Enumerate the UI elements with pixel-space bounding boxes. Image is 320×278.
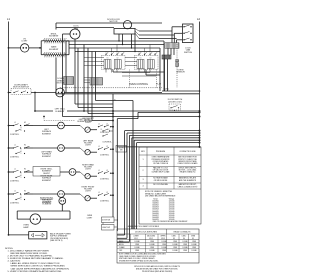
svg-text:H2: H2 [24, 169, 26, 171]
svg-text:RELAYS K3 AND K4: RELAYS K3 AND K4 [180, 171, 196, 174]
svg-text:CLOSED: CLOSED [182, 241, 188, 243]
svg-text:L1: L1 [14, 145, 16, 147]
svg-text:LOWER: LOWER [133, 236, 138, 238]
svg-text:LIGHT: LIGHT [85, 122, 91, 124]
svg-text:3: 3 [142, 179, 143, 181]
svg-text:SWITCH: SWITCH [184, 52, 192, 54]
svg-text:L1: L1 [98, 192, 100, 194]
svg-text:LIGHT: LIGHT [87, 217, 93, 219]
svg-text:K4: K4 [183, 238, 185, 240]
svg-text:(DOOR LOCK): (DOOR LOCK) [168, 102, 182, 104]
svg-text:4. CAUTION:: 4. CAUTION: [8, 260, 21, 263]
svg-text:OVEN CONTROL: OVEN CONTROL [129, 83, 149, 86]
svg-text:120/240: 120/240 [169, 201, 175, 203]
svg-text:L1: L1 [14, 191, 16, 193]
svg-text:MOTOR: MOTOR [110, 21, 118, 23]
svg-text:LIGHT: LIGHT [22, 41, 29, 43]
svg-text:CONTROL: CONTROL [100, 155, 109, 157]
svg-text:OPEN: OPEN [162, 250, 166, 252]
svg-text:L1: L1 [98, 170, 100, 172]
svg-text:CLOSED: CLOSED [161, 247, 167, 249]
svg-text:OVEN CONTROL BOARD: OVEN CONTROL BOARD [178, 162, 199, 165]
svg-text:CONTROL: CONTROL [100, 201, 109, 203]
svg-text:1600811: 1600811 [152, 203, 158, 205]
svg-text:CONTROL: CONTROL [10, 203, 19, 205]
svg-text:SHUNT: SHUNT [43, 173, 50, 175]
svg-text:CLOSED: CLOSED [191, 250, 197, 252]
svg-text:1600815: 1600815 [152, 211, 158, 213]
svg-text:OPEN: OPEN [192, 241, 196, 243]
svg-text:CLOSED: CLOSED [191, 244, 197, 246]
svg-text:L2: L2 [197, 17, 200, 21]
svg-text:1600816: 1600816 [152, 213, 158, 215]
svg-text:OPEN: OPEN [173, 247, 177, 249]
svg-text:LABEL ALL WIRES PRIOR TO DISCO: LABEL ALL WIRES PRIOR TO DISCONNECTION [11, 262, 60, 265]
svg-text:OPEN: OPEN [183, 244, 187, 246]
svg-text:OPEN: OPEN [150, 247, 154, 249]
svg-text:DOOR SW: DOOR SW [102, 219, 110, 221]
svg-text:1600810: 1600810 [152, 201, 158, 203]
svg-text:SW 2: SW 2 [149, 238, 153, 240]
svg-text:120/240: 120/240 [169, 219, 175, 221]
svg-text:CAN CAUSE IMPROPER AND DANGERO: CAN CAUSE IMPROPER AND DANGEROUS OPERATI… [11, 267, 70, 270]
svg-text:DURING SELF CLEAN: DURING SELF CLEAN [152, 171, 170, 174]
svg-text:2: 2 [142, 170, 143, 172]
svg-text:OR BROIL MODE: OR BROIL MODE [154, 180, 168, 182]
svg-text:LINE 2: LINE 2 [182, 236, 187, 238]
svg-text:DOOR LOCK SWITCHES: DOOR LOCK SWITCHES [135, 232, 158, 234]
svg-text:LAMP: LAMP [23, 226, 29, 229]
svg-text:K2: K2 [150, 58, 152, 60]
svg-text:5. VERIFY PROPER OPERATION AFT: 5. VERIFY PROPER OPERATION AFTER SERVICI… [8, 270, 63, 273]
svg-text:CLOSED: CLOSED [172, 250, 178, 252]
svg-text:ELEMENT: ELEMENT [42, 133, 52, 135]
svg-text:CLOSED: CLOSED [149, 250, 155, 252]
svg-text:MOTOR: MOTOR [57, 83, 65, 85]
svg-text:LIGHT: LIGHT [85, 169, 91, 171]
svg-text:120/240: 120/240 [169, 211, 175, 213]
svg-text:CLOSED: CLOSED [149, 244, 155, 246]
svg-text:1. DISCONNECT RANGE FROM POWER: 1. DISCONNECT RANGE FROM POWER [8, 249, 50, 252]
svg-text:AND THE ELEMENTS: AND THE ELEMENTS [179, 179, 197, 182]
svg-text:UPPER: UPPER [161, 236, 166, 238]
svg-text:3. SURF/OVN PLEASE RETURN DIAG: 3. SURF/OVN PLEASE RETURN DIAGRAM TO RAN… [8, 257, 64, 260]
svg-text:CHECK CONNECTOR P2: CHECK CONNECTOR P2 [178, 186, 198, 188]
svg-text:4: 4 [142, 186, 143, 188]
svg-text:120/240: 120/240 [169, 213, 175, 215]
svg-text:(SEE NOTE 3): (SEE NOTE 3) [50, 240, 63, 242]
svg-text:CLOSED: CLOSED [161, 241, 167, 243]
svg-text:SENSOR: SENSOR [176, 72, 185, 74]
svg-text:OPEN: OPEN [150, 241, 154, 243]
svg-text:L1: L1 [7, 17, 10, 21]
svg-text:ELEMENT: ELEMENT [42, 180, 52, 182]
svg-text:L1: L1 [101, 129, 103, 131]
svg-text:120/240: 120/240 [169, 209, 175, 211]
svg-text:L1: L1 [98, 146, 100, 148]
svg-text:K3: K3 [173, 238, 175, 240]
svg-text:K5: K5 [192, 238, 194, 240]
svg-text:OPEN: OPEN [135, 250, 139, 252]
svg-text:1600812: 1600812 [152, 205, 158, 207]
svg-text:CONTACTS IN USE: CONTACTS IN USE [179, 150, 196, 153]
svg-text:120/240: 120/240 [169, 217, 175, 219]
svg-text:CLOSED: CLOSED [172, 244, 178, 246]
svg-text:ELEMENT: ELEMENT [42, 156, 52, 158]
svg-text:H2: H2 [24, 191, 26, 193]
svg-text:CONTROL: CONTROL [102, 142, 111, 144]
svg-text:L1: L1 [14, 169, 16, 171]
svg-text:OPEN: OPEN [135, 244, 139, 246]
svg-text:BROIL: BROIL [119, 244, 124, 246]
svg-text:L1: L1 [98, 124, 100, 126]
svg-text:1600814: 1600814 [152, 209, 158, 211]
svg-text:ON THE CONSOLE: ON THE CONSOLE [153, 163, 169, 165]
svg-text:NO COOLING FAN: NO COOLING FAN [153, 183, 168, 186]
svg-text:CONTROL: CONTROL [100, 179, 109, 181]
svg-text:OPEN: OPEN [192, 247, 196, 249]
svg-text:LIGHT: LIGHT [85, 191, 91, 193]
svg-text:OVEN: OVEN [191, 236, 195, 238]
svg-text:SW 3: SW 3 [161, 238, 165, 240]
svg-text:LIGHT: LIGHT [85, 145, 91, 147]
svg-text:OPEN: OPEN [173, 241, 177, 243]
svg-text:NOTE: P/N 74008653-1 EFFECTIVE: NOTE: P/N 74008653-1 EFFECTIVE [145, 191, 173, 193]
svg-text:L1: L1 [14, 122, 16, 124]
svg-text:120/240: 120/240 [169, 215, 175, 217]
svg-text:P1-13: P1-13 [156, 84, 161, 86]
svg-text:1600813: 1600813 [152, 207, 158, 209]
svg-text:CONTROL: CONTROL [100, 132, 109, 134]
svg-text:1: 1 [142, 159, 143, 161]
svg-text:CLOSED: CLOSED [182, 247, 188, 249]
svg-text:1600819: 1600819 [152, 219, 158, 221]
svg-text:RELAY CONTACTS: RELAY CONTACTS [174, 231, 192, 234]
svg-text:UNLOCKED: UNLOCKED [147, 236, 155, 238]
svg-text:ELEMENT: ELEMENT [43, 204, 53, 206]
svg-text:K1: K1 [140, 58, 142, 60]
svg-text:L2: L2 [108, 129, 110, 131]
svg-text:1600817: 1600817 [152, 215, 158, 217]
svg-text:ELEMENT: ELEMENT [56, 111, 66, 113]
svg-text:H2: H2 [24, 145, 26, 147]
svg-text:LIGHT SW: LIGHT SW [102, 227, 110, 229]
svg-text:ELEMENT: ELEMENT [49, 49, 59, 51]
svg-text:H2: H2 [24, 122, 26, 124]
svg-text:120/240: 120/240 [169, 205, 175, 207]
svg-text:OPEN: OPEN [183, 250, 187, 252]
svg-text:120/240: 120/240 [169, 207, 175, 209]
svg-text:K1: K1 [107, 58, 109, 60]
svg-text:2. MOTOR ONLY TO FEATURED EQUI: 2. MOTOR ONLY TO FEATURED EQUIPPED. [8, 255, 54, 258]
svg-text:1600818: 1600818 [152, 217, 158, 219]
svg-text:120/240: 120/240 [169, 203, 175, 205]
svg-text:CLOSED: CLOSED [134, 241, 140, 243]
svg-text:CONTROL: CONTROL [10, 181, 19, 183]
svg-text:PROBLEM: PROBLEM [156, 151, 166, 153]
svg-text:K2: K2 [117, 58, 119, 60]
svg-text:SW 1: SW 1 [134, 238, 138, 240]
svg-text:CLOSED: CLOSED [134, 247, 140, 249]
svg-text:ELEMENT: ELEMENT [49, 36, 59, 38]
svg-text:CONTROL: CONTROL [10, 134, 19, 136]
svg-text:LINE 1: LINE 1 [172, 236, 177, 238]
svg-text:OFF: OFF [119, 250, 122, 252]
svg-text:CONTROL: CONTROL [10, 157, 19, 159]
svg-text:OPEN: OPEN [162, 244, 166, 246]
